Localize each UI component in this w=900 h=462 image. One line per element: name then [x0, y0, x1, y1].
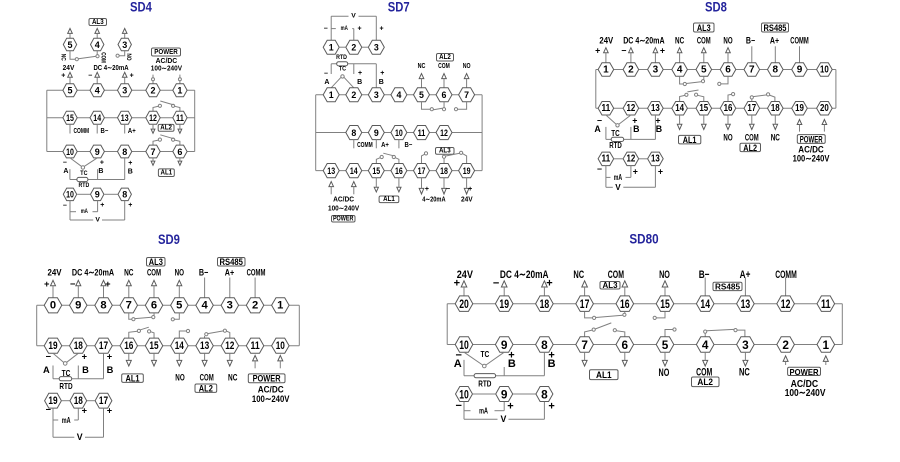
svg-text:V: V: [95, 217, 100, 224]
NO contact circle above 5: [665, 328, 676, 337]
svg-text:18: 18: [74, 340, 83, 352]
arrow down alarm 1 output: [622, 352, 627, 366]
relay AL3 contact NC-COM-NO: [129, 313, 180, 321]
terminal 12: [623, 152, 639, 166]
svg-text:2: 2: [351, 90, 356, 100]
svg-text:+: +: [454, 278, 460, 290]
svg-text:mA: mA: [341, 25, 348, 32]
svg-text:AL2: AL2: [697, 377, 713, 387]
svg-text:AL2: AL2: [743, 143, 757, 153]
wire 11-12: [614, 158, 623, 160]
arrow down alarm 1 output: [152, 353, 157, 366]
arrow down alarm 1 output: [178, 158, 182, 165]
svg-text:B−: B−: [746, 35, 755, 45]
AL3 label box: [694, 23, 715, 33]
mA branch wire: [606, 166, 631, 188]
svg-text:NO: NO: [463, 63, 471, 70]
svg-text:COM: COM: [745, 133, 759, 143]
wire row 2: [316, 132, 482, 134]
terminal 13: [648, 152, 664, 166]
svg-text:18: 18: [440, 166, 448, 176]
svg-text:4: 4: [677, 64, 683, 75]
svg-text:13: 13: [327, 166, 335, 176]
terminal 13: [118, 111, 132, 124]
pin tick 8: [353, 140, 355, 149]
svg-text:2: 2: [252, 300, 258, 312]
terminal 19: [495, 296, 513, 312]
svg-text:−: −: [493, 278, 499, 290]
terminal 11: [246, 338, 263, 353]
svg-text:2: 2: [351, 43, 356, 53]
terminal 1: [323, 40, 339, 54]
arrow up input: [622, 281, 628, 296]
svg-text:A: A: [454, 358, 462, 370]
arrow up power input: [352, 182, 357, 195]
svg-text:20: 20: [820, 103, 829, 114]
terminal 9: [792, 63, 808, 76]
svg-text:NC: NC: [675, 35, 685, 45]
svg-text:18: 18: [540, 297, 550, 311]
terminal 13: [648, 102, 664, 116]
svg-text:POWER: POWER: [253, 374, 281, 384]
wire left rail: [36, 305, 38, 345]
arrow up input: [542, 281, 548, 296]
terminal 3: [118, 38, 131, 51]
arrow up input: [662, 281, 668, 296]
svg-text:10: 10: [66, 190, 74, 200]
svg-text:V: V: [77, 432, 83, 442]
arrow down output: [419, 178, 424, 194]
svg-text:COMM: COMM: [74, 128, 90, 135]
RTD element: [611, 137, 624, 141]
RTD element: [474, 374, 496, 378]
svg-text:9: 9: [95, 190, 100, 200]
POWER label box: [797, 134, 825, 144]
svg-text:14: 14: [350, 166, 358, 176]
arrow up input: [702, 48, 707, 63]
svg-text:B: B: [508, 358, 516, 370]
svg-text:9: 9: [501, 338, 508, 352]
svg-text:16: 16: [124, 340, 133, 352]
svg-text:5: 5: [67, 40, 72, 50]
terminal 16: [120, 338, 138, 353]
terminal 9: [495, 337, 513, 352]
svg-text:8: 8: [122, 147, 127, 157]
svg-text:+: +: [660, 46, 665, 56]
svg-text:−: −: [63, 203, 67, 210]
relay AL1 contact: [153, 135, 180, 145]
terminal 14: [696, 296, 714, 312]
AL3 label box: [147, 257, 166, 267]
terminal 8: [768, 63, 784, 76]
arrow up alarm output: [95, 28, 100, 38]
arrow down alarm 2 output: [773, 115, 778, 130]
arrow up input: [51, 280, 56, 297]
svg-text:NC: NC: [60, 54, 67, 61]
RTD wire from terminal 17: [103, 353, 105, 378]
svg-text:+: +: [61, 73, 65, 80]
contact NC wire from terminal 5: [70, 51, 75, 59]
svg-text:+: +: [380, 70, 384, 77]
svg-text:+: +: [44, 279, 50, 289]
svg-text:13: 13: [200, 340, 209, 352]
svg-text:4: 4: [95, 86, 100, 96]
thermocouple TC junction: [606, 115, 631, 127]
wire right rail: [841, 304, 843, 345]
contact COM wire from terminal 4: [96, 51, 98, 55]
terminal 3: [118, 84, 132, 97]
svg-text:10: 10: [66, 147, 74, 157]
svg-text:B: B: [357, 79, 362, 86]
svg-text:COM: COM: [147, 268, 161, 278]
svg-text:RTD: RTD: [336, 54, 347, 61]
AL2 label box: [692, 377, 720, 387]
terminal 7: [120, 298, 138, 313]
terminal 8: [118, 145, 132, 158]
RS485 label box: [762, 23, 789, 33]
terminal 9: [90, 145, 104, 158]
terminal 9: [368, 126, 384, 140]
svg-text:NO: NO: [125, 54, 132, 61]
AL3 label box: [600, 281, 620, 290]
terminal 20: [455, 296, 473, 312]
svg-text:−: −: [324, 26, 328, 33]
svg-text:19: 19: [463, 166, 471, 176]
relay AL3 contact NC-COM-NO: [680, 76, 728, 85]
arrow up input: [101, 280, 106, 297]
terminal 17: [576, 296, 594, 312]
svg-text:5: 5: [419, 90, 424, 100]
arrow up input: [726, 48, 731, 63]
svg-text:6: 6: [177, 147, 182, 157]
terminal 13: [323, 164, 339, 178]
terminal 8: [118, 188, 131, 201]
terminal 11: [817, 296, 835, 312]
V branch wire: [606, 166, 656, 188]
svg-text:15: 15: [66, 113, 74, 123]
svg-text:NC: NC: [573, 269, 584, 281]
terminal 13: [737, 296, 755, 312]
svg-text:B: B: [82, 365, 89, 375]
terminal 3: [221, 298, 239, 313]
svg-text:+: +: [128, 202, 132, 209]
pin tick 10: [398, 140, 400, 149]
svg-text:15: 15: [149, 340, 158, 352]
terminal 5: [414, 88, 430, 102]
terminal 19: [459, 164, 475, 178]
svg-text:B−: B−: [101, 128, 109, 135]
arrow down alarm 1 output: [677, 115, 682, 130]
arrow up alarm output: [68, 28, 73, 38]
wire right rail: [194, 90, 196, 151]
relay AL3 label box: [89, 19, 107, 26]
svg-text:9: 9: [95, 147, 100, 157]
terminal 18: [70, 393, 87, 408]
terminal 7: [576, 337, 594, 352]
terminal 6: [436, 88, 452, 102]
svg-text:RTD: RTD: [79, 182, 90, 189]
pin tick 15: [69, 124, 71, 133]
AL2 label box: [158, 124, 174, 131]
svg-text:14: 14: [700, 297, 710, 311]
V branch wire: [70, 201, 125, 220]
arrow down alarm 2 output: [177, 353, 182, 366]
svg-text:−: −: [88, 73, 92, 80]
svg-text:19: 19: [499, 297, 509, 311]
svg-text:A+: A+: [381, 142, 389, 149]
terminal 1: [817, 337, 835, 352]
RTD wire A stub: [463, 360, 465, 376]
RTD wire from terminal 8: [124, 158, 126, 180]
pin wire stub: [744, 278, 746, 296]
terminal 8: [346, 126, 362, 140]
terminal 17: [95, 393, 112, 408]
svg-text:SD9: SD9: [158, 232, 180, 248]
svg-text:14: 14: [675, 103, 684, 114]
RTD wire B stub: [630, 127, 632, 139]
relay AL3 contact: [442, 151, 466, 163]
svg-text:AL1: AL1: [596, 370, 612, 380]
svg-text:+: +: [100, 159, 104, 166]
RS485 label box: [218, 257, 246, 267]
svg-text:+: +: [468, 186, 472, 193]
terminal 7: [744, 63, 760, 76]
svg-text:8: 8: [541, 338, 548, 352]
terminal 12: [436, 126, 452, 140]
RTD wire A stub: [52, 366, 54, 379]
AL1 label box: [122, 374, 144, 384]
svg-text:+: +: [107, 352, 113, 362]
svg-text:9: 9: [501, 387, 508, 401]
svg-text:17: 17: [580, 297, 590, 311]
terminal 8: [536, 337, 554, 352]
contact arm: [78, 56, 95, 58]
RS485 label box: [713, 282, 742, 291]
AL1 label box: [679, 135, 701, 145]
terminal 10: [817, 63, 833, 76]
AL2 label box: [740, 143, 761, 153]
terminal 5: [171, 298, 189, 313]
terminal 19: [45, 393, 62, 408]
arrow down alarm 1 output: [582, 352, 587, 366]
svg-text:11: 11: [251, 340, 260, 352]
thermocouple TC junction: [331, 75, 354, 88]
svg-text:SD8: SD8: [705, 0, 727, 16]
svg-text:AL3: AL3: [92, 19, 104, 26]
terminal 19: [792, 102, 808, 116]
wire right rail: [298, 305, 300, 345]
wire 1-2: [339, 46, 346, 48]
terminal 20: [817, 102, 833, 116]
svg-text:3: 3: [122, 40, 127, 50]
svg-text:SD4: SD4: [130, 0, 152, 16]
svg-text:1: 1: [823, 338, 830, 352]
terminal 14: [171, 338, 189, 353]
svg-text:AC/DC: AC/DC: [258, 384, 284, 394]
RTD wire from terminal 13: [654, 115, 656, 139]
svg-text:NC: NC: [418, 63, 426, 70]
terminal 18: [536, 296, 554, 312]
svg-text:3: 3: [227, 300, 233, 312]
svg-text:10: 10: [820, 64, 829, 75]
POWER label box: [332, 216, 356, 223]
svg-text:V: V: [500, 414, 506, 424]
svg-text:POWER: POWER: [790, 367, 819, 377]
arrow down alarm 1 output: [702, 115, 707, 130]
svg-text:B: B: [656, 124, 662, 134]
svg-text:POWER: POWER: [154, 49, 178, 56]
svg-text:TC: TC: [80, 170, 88, 177]
svg-text:COM: COM: [697, 35, 711, 45]
svg-text:+: +: [548, 400, 554, 412]
terminal 6: [173, 145, 187, 158]
svg-text:2: 2: [782, 338, 789, 352]
svg-text:+: +: [128, 160, 132, 167]
svg-text:13: 13: [651, 103, 660, 114]
POWER label box: [152, 48, 181, 56]
svg-text:1: 1: [603, 64, 609, 75]
terminal 2: [346, 88, 362, 102]
svg-text:12: 12: [627, 154, 636, 165]
terminal 1: [598, 63, 614, 76]
terminal 12: [146, 111, 160, 124]
svg-text:100∼240V: 100∼240V: [151, 65, 182, 72]
svg-text:24V: 24V: [63, 65, 75, 72]
terminal 10: [272, 338, 290, 353]
svg-text:B−: B−: [405, 142, 413, 149]
svg-text:8: 8: [100, 300, 106, 312]
arrow down output: [442, 178, 447, 194]
svg-text:POWER: POWER: [800, 134, 823, 144]
svg-text:−: −: [46, 352, 52, 362]
terminal 14: [90, 111, 104, 124]
svg-text:12: 12: [627, 103, 636, 114]
power terminal wire with circle: [178, 75, 181, 84]
terminal 15: [368, 164, 384, 178]
svg-text:NO: NO: [659, 367, 670, 379]
terminal 1: [173, 84, 187, 97]
svg-text:AL2: AL2: [199, 384, 213, 394]
svg-text:B: B: [633, 124, 639, 134]
arrow down alarm 1 output: [397, 178, 401, 192]
terminal 14: [346, 164, 362, 178]
svg-text:7: 7: [749, 64, 755, 75]
svg-text:RS485: RS485: [764, 23, 787, 33]
svg-text:COMM: COMM: [357, 142, 373, 149]
svg-text:7: 7: [126, 300, 132, 312]
svg-text:4: 4: [201, 300, 208, 312]
NO contact circle above 14: [179, 329, 189, 338]
relay AL2 contact: [153, 101, 180, 111]
RTD wire A stub: [330, 64, 332, 74]
svg-text:NO: NO: [175, 268, 184, 278]
wire row 3: [47, 151, 195, 153]
arrow up input: [653, 48, 658, 63]
svg-text:−: −: [324, 70, 328, 77]
mA branch wire: [70, 201, 98, 220]
terminal 15: [63, 111, 77, 124]
svg-text:mA: mA: [614, 173, 623, 182]
arrow up input: [604, 48, 609, 63]
svg-text:NO: NO: [723, 35, 732, 45]
svg-text:+: +: [105, 279, 111, 289]
arrow up alarm 2 output: [442, 74, 447, 88]
AL2 label box: [195, 384, 217, 394]
terminal 16: [391, 164, 407, 178]
svg-text:COM: COM: [99, 52, 106, 63]
terminal 10: [63, 145, 77, 158]
arrow up input: [582, 281, 588, 296]
RTD wire B stub: [77, 366, 79, 379]
arrow down alarm 2 output: [743, 352, 748, 366]
svg-text:A: A: [594, 124, 601, 134]
terminal 6: [145, 298, 163, 313]
svg-text:7: 7: [464, 90, 469, 100]
RTD wire A stub: [69, 169, 71, 179]
pin wire stub: [774, 46, 776, 63]
terminal 9: [91, 188, 104, 201]
svg-text:mA: mA: [479, 406, 488, 416]
pin wire stub: [204, 278, 206, 298]
wire row 1: [316, 94, 482, 96]
arrow up power input: [783, 356, 788, 365]
svg-text:15: 15: [372, 166, 380, 176]
svg-text:+: +: [425, 186, 429, 193]
svg-text:AL3: AL3: [697, 23, 711, 33]
svg-text:+: +: [379, 26, 383, 33]
svg-text:AC/DC: AC/DC: [156, 58, 178, 65]
contact NO wire to terminal 3: [119, 51, 125, 56]
terminal 12: [221, 338, 239, 353]
svg-text:5: 5: [701, 64, 707, 75]
wire 10-9: [473, 393, 496, 395]
svg-text:B: B: [379, 79, 384, 86]
wire row 2: [37, 345, 300, 347]
terminal 10: [63, 188, 76, 201]
RTD wire B stub: [97, 169, 99, 179]
wire row 2: [47, 117, 195, 119]
arrow up input: [95, 72, 100, 84]
arrow up power input: [253, 356, 258, 369]
svg-text:13: 13: [651, 154, 660, 165]
svg-text:11: 11: [176, 113, 184, 123]
svg-text:24V: 24V: [47, 268, 62, 278]
svg-text:6: 6: [622, 338, 629, 352]
svg-text:−: −: [63, 159, 67, 166]
svg-text:5: 5: [662, 338, 669, 352]
svg-text:13: 13: [121, 113, 129, 123]
terminal 17: [95, 338, 113, 353]
arrow up input: [152, 280, 157, 297]
svg-text:18: 18: [771, 103, 780, 114]
svg-text:16: 16: [395, 166, 403, 176]
svg-text:A: A: [43, 365, 50, 375]
svg-text:100∼240V: 100∼240V: [785, 387, 826, 399]
svg-text:3: 3: [742, 338, 749, 352]
svg-text:14: 14: [93, 113, 101, 123]
terminal 8: [536, 387, 553, 402]
svg-text:24V: 24V: [461, 197, 473, 204]
svg-text:1: 1: [277, 300, 283, 312]
terminal 4: [90, 84, 104, 97]
arrow up alarm 2 output: [464, 74, 469, 88]
terminal 9: [496, 387, 513, 402]
svg-text:17: 17: [418, 166, 426, 176]
svg-text:6: 6: [442, 90, 447, 100]
terminal 8: [95, 298, 113, 313]
arrow up power input: [278, 356, 283, 369]
svg-text:12: 12: [440, 128, 448, 138]
